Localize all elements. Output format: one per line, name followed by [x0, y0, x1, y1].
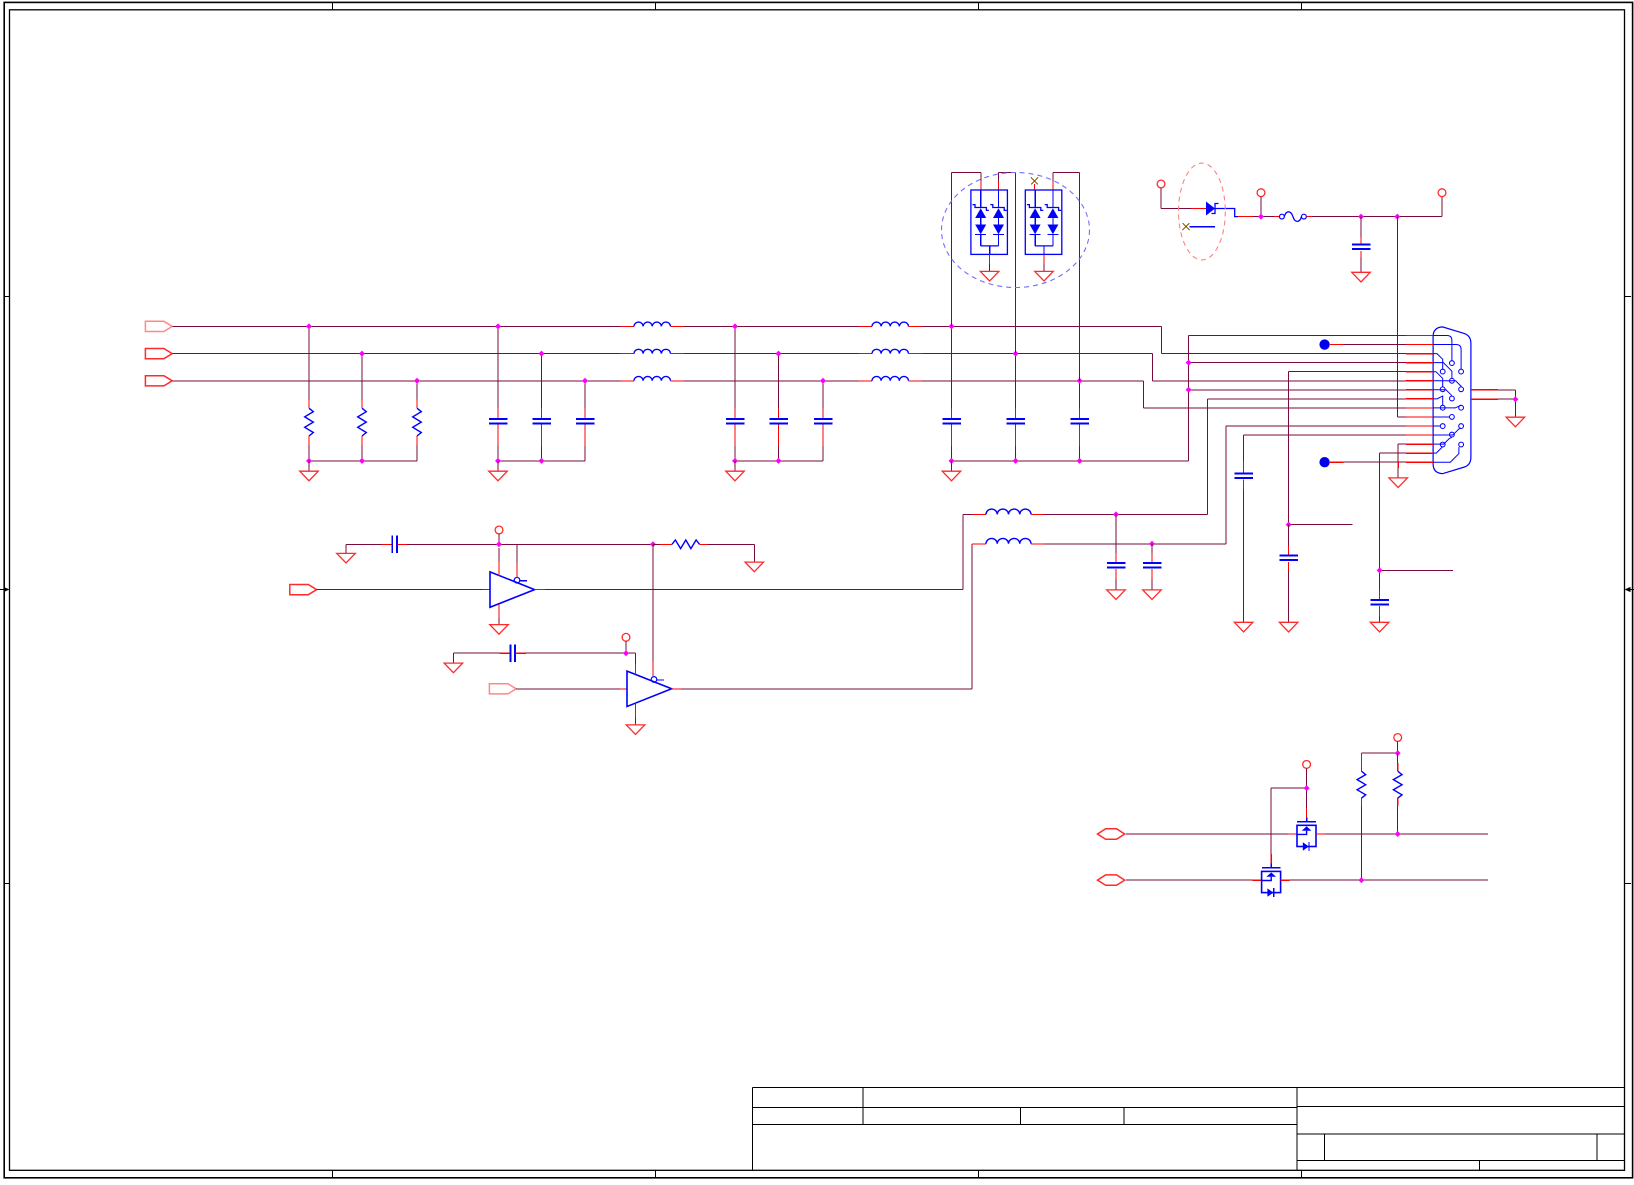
junction bus C9 — [1077, 458, 1083, 464]
ground for U1B — [626, 725, 645, 735]
capacitor C14 — [391, 536, 393, 553]
wire T2 stub — [1260, 197, 1262, 217]
wire R line mid1 — [684, 325, 859, 327]
resistor R4 — [653, 540, 754, 562]
VGA pin stubs — [1406, 336, 1498, 463]
ground pin of D1 — [980, 254, 999, 281]
ground for C17 — [1143, 590, 1162, 600]
transistor Q2 — [1262, 864, 1281, 898]
ground for shield — [1506, 417, 1525, 427]
capacitor C11 — [1279, 525, 1298, 623]
wire G step to pin6 — [1152, 354, 1406, 381]
wire pin14 column — [1380, 453, 1454, 590]
wire U1A vcc net — [346, 543, 392, 545]
junction H cap tap — [1113, 511, 1119, 517]
capacitor C8 — [1006, 354, 1025, 461]
capacitor C6 — [814, 381, 833, 461]
junction bus C7 — [949, 458, 955, 464]
blue dashed ellipse around ESD arrays — [942, 173, 1090, 288]
power terminal T3 — [1438, 189, 1446, 197]
no-connect X on D2 pin 1 — [1031, 178, 1038, 191]
capacitor C9 — [1070, 381, 1089, 461]
wire enable net down to U1B — [652, 544, 654, 676]
border center arrow left — [0, 587, 10, 592]
wire L7 to pin8 — [1031, 399, 1406, 515]
ground for cap group2 — [726, 461, 745, 481]
wire U1B vcc net — [453, 652, 509, 654]
wire B line — [172, 380, 620, 382]
junction C10 tap — [1358, 214, 1364, 220]
capacitor C7 — [942, 326, 961, 461]
wire R line mid2 — [922, 325, 1162, 327]
capacitor C2 — [532, 354, 551, 461]
ground for U1A gnd wire — [337, 544, 356, 563]
capacitor C16 — [509, 645, 511, 662]
wire C16 to U1B — [516, 653, 636, 674]
wire pin13 to pin15 tie — [1398, 444, 1406, 478]
power blue dot node pin15 — [1319, 457, 1329, 467]
port P3 (video input B) — [145, 376, 172, 386]
inductor L6 — [859, 376, 923, 380]
border zone ticks right — [1625, 296, 1632, 883]
capacitor C12 — [1234, 461, 1253, 622]
capacitor C3 — [576, 381, 595, 461]
power terminal T2 — [1257, 189, 1265, 197]
fuse F1 — [1280, 212, 1307, 222]
wire G line mid1 — [684, 353, 859, 355]
junction on line at C3 — [582, 378, 588, 384]
no-connect X on D3 unused pin — [1183, 223, 1216, 230]
wire G line mid2 — [922, 353, 1152, 355]
wire cap group3 ground bus to connector gnd — [952, 460, 1189, 462]
ESD diode array D2 — [1025, 190, 1062, 254]
wire B line mid1 — [684, 380, 859, 382]
junction on line at R1 — [306, 323, 312, 329]
wire SDA to Q2 — [1126, 879, 1262, 881]
wire ground bundle column — [1189, 336, 1406, 461]
junction R6 to SCL — [1395, 831, 1401, 837]
wire pin2 — [1330, 344, 1406, 346]
wire pin15 — [1330, 461, 1406, 463]
wire Q1 gate net — [1271, 788, 1306, 863]
resistor R5 — [1357, 753, 1366, 880]
port P7 (DDC SDA) — [1098, 875, 1125, 885]
ground pin of D2 — [1035, 254, 1054, 281]
capacitor C10 — [1352, 217, 1371, 273]
inductor L5 — [859, 349, 923, 353]
VGA connector J1 — [1433, 327, 1471, 474]
inductor L8 — [986, 538, 1031, 543]
junction R5 to SDA — [1358, 877, 1364, 883]
border center arrow right — [1625, 587, 1634, 592]
wire U1A ground pin — [498, 604, 500, 625]
junction +5V column — [1394, 214, 1400, 220]
junction pin14 column — [1377, 567, 1383, 573]
buffer U1A — [490, 572, 535, 607]
ground for cap group1 — [489, 461, 508, 481]
power terminal T6 — [1303, 761, 1311, 769]
border zone ticks top — [333, 3, 1302, 10]
inductor L2 — [621, 349, 685, 353]
junction T6 — [1304, 785, 1310, 791]
resistor R3 — [413, 381, 422, 461]
wire +5V column down to connector — [1397, 217, 1406, 417]
capacitor C4 — [726, 326, 745, 461]
inductor L4 — [859, 322, 923, 326]
wire diode to fuse — [1238, 216, 1279, 218]
title block — [753, 1087, 1625, 1170]
wire R line — [172, 325, 620, 327]
wire SCL to Q1 — [1126, 833, 1297, 835]
wire U1B output to L8 — [671, 544, 986, 689]
wire U1A output to L7 — [535, 514, 986, 589]
ground for cap group3 — [942, 461, 961, 481]
junction bus C2 — [539, 458, 545, 464]
port P4 (H sync input) — [290, 585, 317, 595]
power terminal T5 — [622, 633, 630, 641]
wire B line mid2 — [922, 380, 1143, 382]
wire R step to pin3 — [1162, 326, 1406, 353]
junction on line at R3 — [414, 378, 420, 384]
capacitor C17 — [1143, 544, 1162, 590]
wire U1B ground pin — [635, 704, 637, 725]
inductor L3 — [621, 376, 685, 380]
port P2 (video input G) — [145, 349, 172, 359]
junction on line at C6 — [820, 378, 826, 384]
junction on line at C1 — [495, 323, 501, 329]
ESD diode array D1 — [971, 190, 1008, 254]
wire T4 stub — [498, 534, 500, 544]
ground for C12 — [1234, 622, 1253, 632]
resistor R6 — [1393, 753, 1402, 834]
junction on line at C7 — [949, 323, 955, 329]
junction pin5 column — [1286, 522, 1292, 528]
schottky diode D3 — [1206, 202, 1238, 217]
ground for C13 — [1370, 622, 1389, 632]
junction bus R2 — [359, 458, 365, 464]
wire T1 to diode — [1161, 188, 1206, 209]
junction gnd pin4 — [1186, 360, 1192, 366]
wire Q1 source to resistors — [1316, 833, 1488, 835]
ground for U1A — [490, 625, 509, 635]
junction bus C1 — [495, 458, 501, 464]
port P5 (V sync input) — [489, 684, 516, 694]
ground for R4 — [745, 562, 764, 572]
wire Q2 source right — [1281, 879, 1488, 881]
wire fuse to terminal T3 — [1306, 197, 1442, 217]
junction T5 — [623, 650, 629, 656]
wire L8 to pin11 — [1031, 426, 1406, 544]
ground under connector — [1389, 478, 1408, 488]
ground for U1B vcc net wire — [444, 653, 463, 673]
ground for C15 — [1107, 590, 1126, 600]
capacitor C1 — [489, 326, 508, 461]
junction enable net — [650, 541, 656, 547]
ground for C11 — [1279, 622, 1298, 632]
junction on line at C4 — [732, 323, 738, 329]
junction gnd pin7 — [1186, 387, 1192, 393]
junction T4 — [496, 541, 502, 547]
transistor Q1 — [1297, 817, 1316, 851]
wire cap group1 ground bus — [498, 460, 585, 462]
power terminal T1 — [1157, 180, 1165, 188]
wire resistor ground bus — [309, 460, 417, 462]
wire P4 to U1 input — [317, 589, 490, 591]
junction shield — [1512, 396, 1518, 402]
junction on line at R2 — [359, 351, 365, 357]
resistor R1 — [305, 326, 314, 461]
wire cap group2 ground bus — [735, 460, 823, 462]
wire C14 to U1A — [398, 544, 654, 577]
wire R column up to ESD D1 — [952, 173, 981, 327]
junction bus R1 — [306, 458, 312, 464]
port P6 (DDC SCL) — [1098, 829, 1125, 839]
capacitor C5 — [769, 354, 788, 461]
junction on line at C8 — [1013, 351, 1019, 357]
inductor L7 — [986, 509, 1031, 514]
wire pullup rail — [1361, 752, 1397, 754]
capacitor C15 — [1107, 514, 1126, 590]
wire B column up to ESD D2 — [1053, 173, 1080, 381]
resistor R2 — [358, 354, 367, 461]
border zone ticks left — [5, 296, 10, 883]
wire G column up to ESD D1 — [999, 173, 1016, 354]
inductor L1 — [621, 322, 685, 326]
buffer U1B — [627, 671, 672, 706]
junction T7 — [1395, 750, 1401, 756]
junction on line at C9 — [1077, 378, 1083, 384]
wire pin12 column — [1244, 435, 1406, 461]
ground for C10 — [1352, 272, 1371, 282]
ground for resistor bus — [300, 461, 319, 481]
wire pin5 column — [1289, 372, 1406, 525]
border zone ticks bottom — [333, 1170, 1302, 1177]
wire P5 to U1B input — [516, 688, 627, 690]
junction T2 — [1258, 214, 1264, 220]
junction bus C5 — [776, 458, 782, 464]
wire connector shield to ground — [1498, 390, 1515, 417]
power terminal T7 — [1394, 734, 1402, 742]
red dashed ellipse around D3 — [1179, 163, 1226, 260]
port P1 (video input R) — [145, 321, 172, 331]
junction bus C8 — [1013, 458, 1019, 464]
wire T6 stub — [1306, 768, 1308, 788]
wire G line — [172, 353, 620, 355]
wire B step to pin9 — [1143, 381, 1406, 408]
junction on line at C5 — [776, 351, 782, 357]
junction V cap tap — [1149, 541, 1155, 547]
power terminal T4 — [495, 526, 503, 534]
junction bus C4 — [732, 458, 738, 464]
power blue dot node pin2 — [1319, 339, 1329, 349]
capacitor C13 — [1370, 590, 1389, 622]
junction on line at C2 — [539, 351, 545, 357]
wire T5 stub — [625, 641, 627, 653]
wire T7 stub — [1397, 741, 1399, 753]
